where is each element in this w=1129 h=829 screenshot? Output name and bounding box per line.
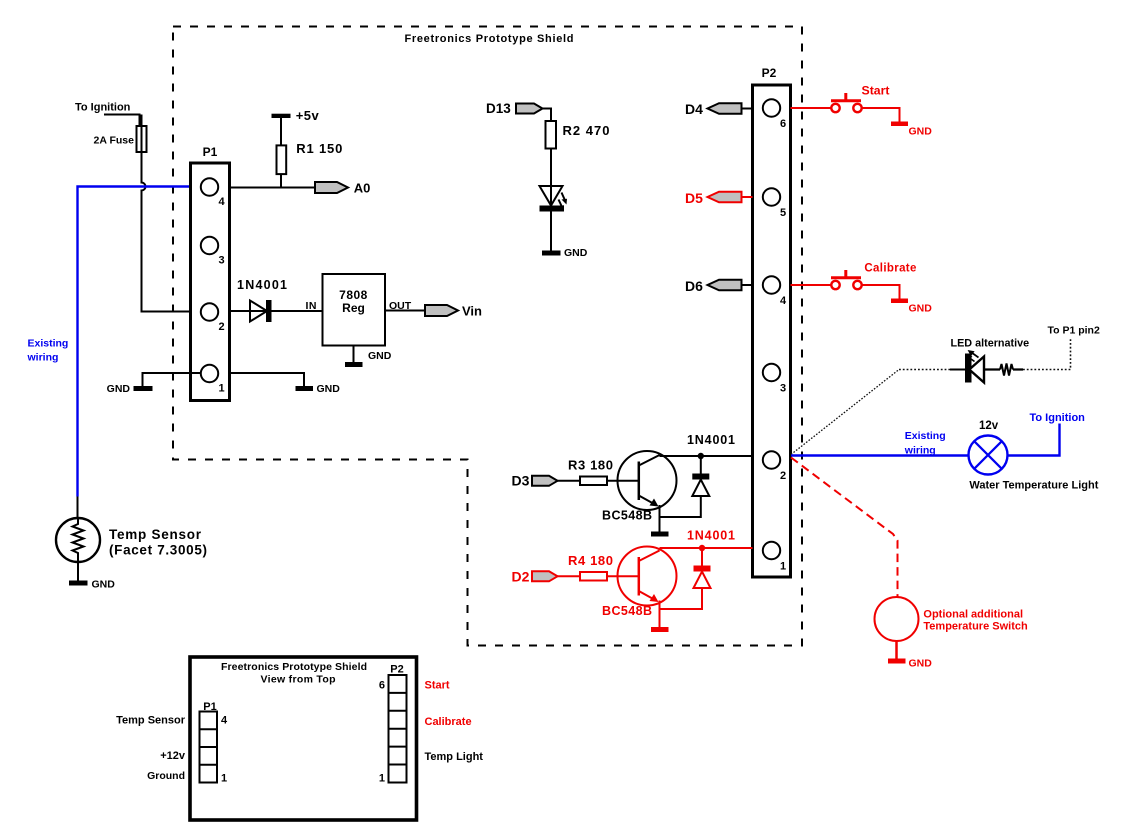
svg-text:Ground: Ground [147, 770, 185, 782]
svg-text:4: 4 [221, 715, 228, 727]
svg-text:7808: 7808 [339, 288, 368, 302]
svg-text:P1: P1 [203, 145, 218, 159]
svg-text:6: 6 [780, 118, 786, 130]
svg-text:LED alternative: LED alternative [951, 338, 1030, 350]
svg-text:R1 150: R1 150 [296, 141, 342, 156]
svg-text:1: 1 [221, 773, 227, 785]
svg-text:GND: GND [909, 303, 933, 315]
svg-text:To P1 pin2: To P1 pin2 [1048, 325, 1100, 337]
svg-text:Vin: Vin [462, 304, 482, 319]
svg-text:6: 6 [379, 680, 385, 692]
svg-text:GND: GND [317, 383, 341, 395]
svg-text:Water Temperature Light: Water Temperature Light [969, 480, 1098, 492]
svg-text:Optional additional: Optional additional [923, 609, 1023, 621]
svg-text:1: 1 [780, 561, 786, 573]
svg-text:12v: 12v [979, 420, 999, 432]
svg-text:2: 2 [219, 321, 225, 333]
svg-text:R2 470: R2 470 [563, 123, 610, 138]
svg-text:+12v: +12v [160, 750, 186, 762]
svg-text:Temp Sensor: Temp Sensor [109, 527, 202, 542]
svg-text:Existing: Existing [28, 338, 69, 350]
svg-text:1N4001: 1N4001 [687, 529, 735, 543]
svg-text:2A Fuse: 2A Fuse [94, 135, 135, 147]
svg-text:P2: P2 [390, 664, 403, 676]
svg-text:3: 3 [780, 383, 786, 395]
svg-text:Temp Sensor: Temp Sensor [116, 715, 186, 727]
svg-text:Temp Light: Temp Light [425, 751, 484, 763]
svg-text:BC548B: BC548B [602, 604, 652, 618]
svg-text:D5: D5 [685, 190, 703, 206]
svg-text:4: 4 [219, 196, 226, 208]
svg-text:IN: IN [306, 300, 318, 312]
svg-text:Calibrate: Calibrate [864, 262, 916, 274]
svg-text:Start: Start [425, 680, 450, 692]
svg-text:To Ignition: To Ignition [75, 102, 131, 114]
svg-text:GND: GND [564, 247, 588, 259]
svg-text:GND: GND [909, 126, 933, 138]
svg-text:A0: A0 [354, 181, 371, 196]
svg-text:D4: D4 [685, 101, 703, 117]
svg-text:D13: D13 [486, 101, 511, 116]
svg-text:+5v: +5v [296, 108, 320, 123]
svg-text:4: 4 [780, 295, 787, 307]
svg-text:Reg: Reg [342, 301, 365, 315]
svg-text:Calibrate: Calibrate [425, 716, 472, 728]
svg-text:Temperature Switch: Temperature Switch [923, 621, 1028, 633]
svg-text:GND: GND [368, 350, 392, 362]
svg-text:wiring: wiring [904, 444, 936, 456]
svg-text:Existing: Existing [905, 430, 946, 442]
svg-text:GND: GND [92, 579, 116, 591]
svg-text:Freetronics Prototype Shield: Freetronics Prototype Shield [405, 33, 574, 45]
svg-text:View from Top: View from Top [261, 674, 336, 686]
svg-text:3: 3 [219, 255, 225, 267]
svg-text:GND: GND [909, 658, 933, 670]
svg-text:BC548B: BC548B [602, 508, 652, 522]
svg-text:1N4001: 1N4001 [237, 278, 287, 292]
svg-text:P2: P2 [762, 66, 777, 80]
svg-text:2: 2 [780, 470, 786, 482]
svg-text:R3 180: R3 180 [568, 458, 613, 473]
svg-text:1: 1 [219, 383, 225, 395]
svg-text:D6: D6 [685, 278, 703, 294]
svg-text:GND: GND [107, 383, 131, 395]
svg-text:5: 5 [780, 207, 786, 219]
svg-text:wiring: wiring [27, 352, 59, 364]
svg-text:1: 1 [379, 773, 385, 785]
svg-text:To Ignition: To Ignition [1030, 412, 1086, 424]
svg-text:D3: D3 [512, 473, 530, 489]
svg-text:1N4001: 1N4001 [687, 433, 735, 447]
svg-text:(Facet 7.3005): (Facet 7.3005) [109, 543, 207, 558]
svg-text:R4 180: R4 180 [568, 553, 613, 568]
svg-text:Freetronics Prototype Shield: Freetronics Prototype Shield [221, 661, 367, 673]
svg-text:D2: D2 [512, 568, 530, 584]
svg-text:Start: Start [862, 86, 890, 98]
